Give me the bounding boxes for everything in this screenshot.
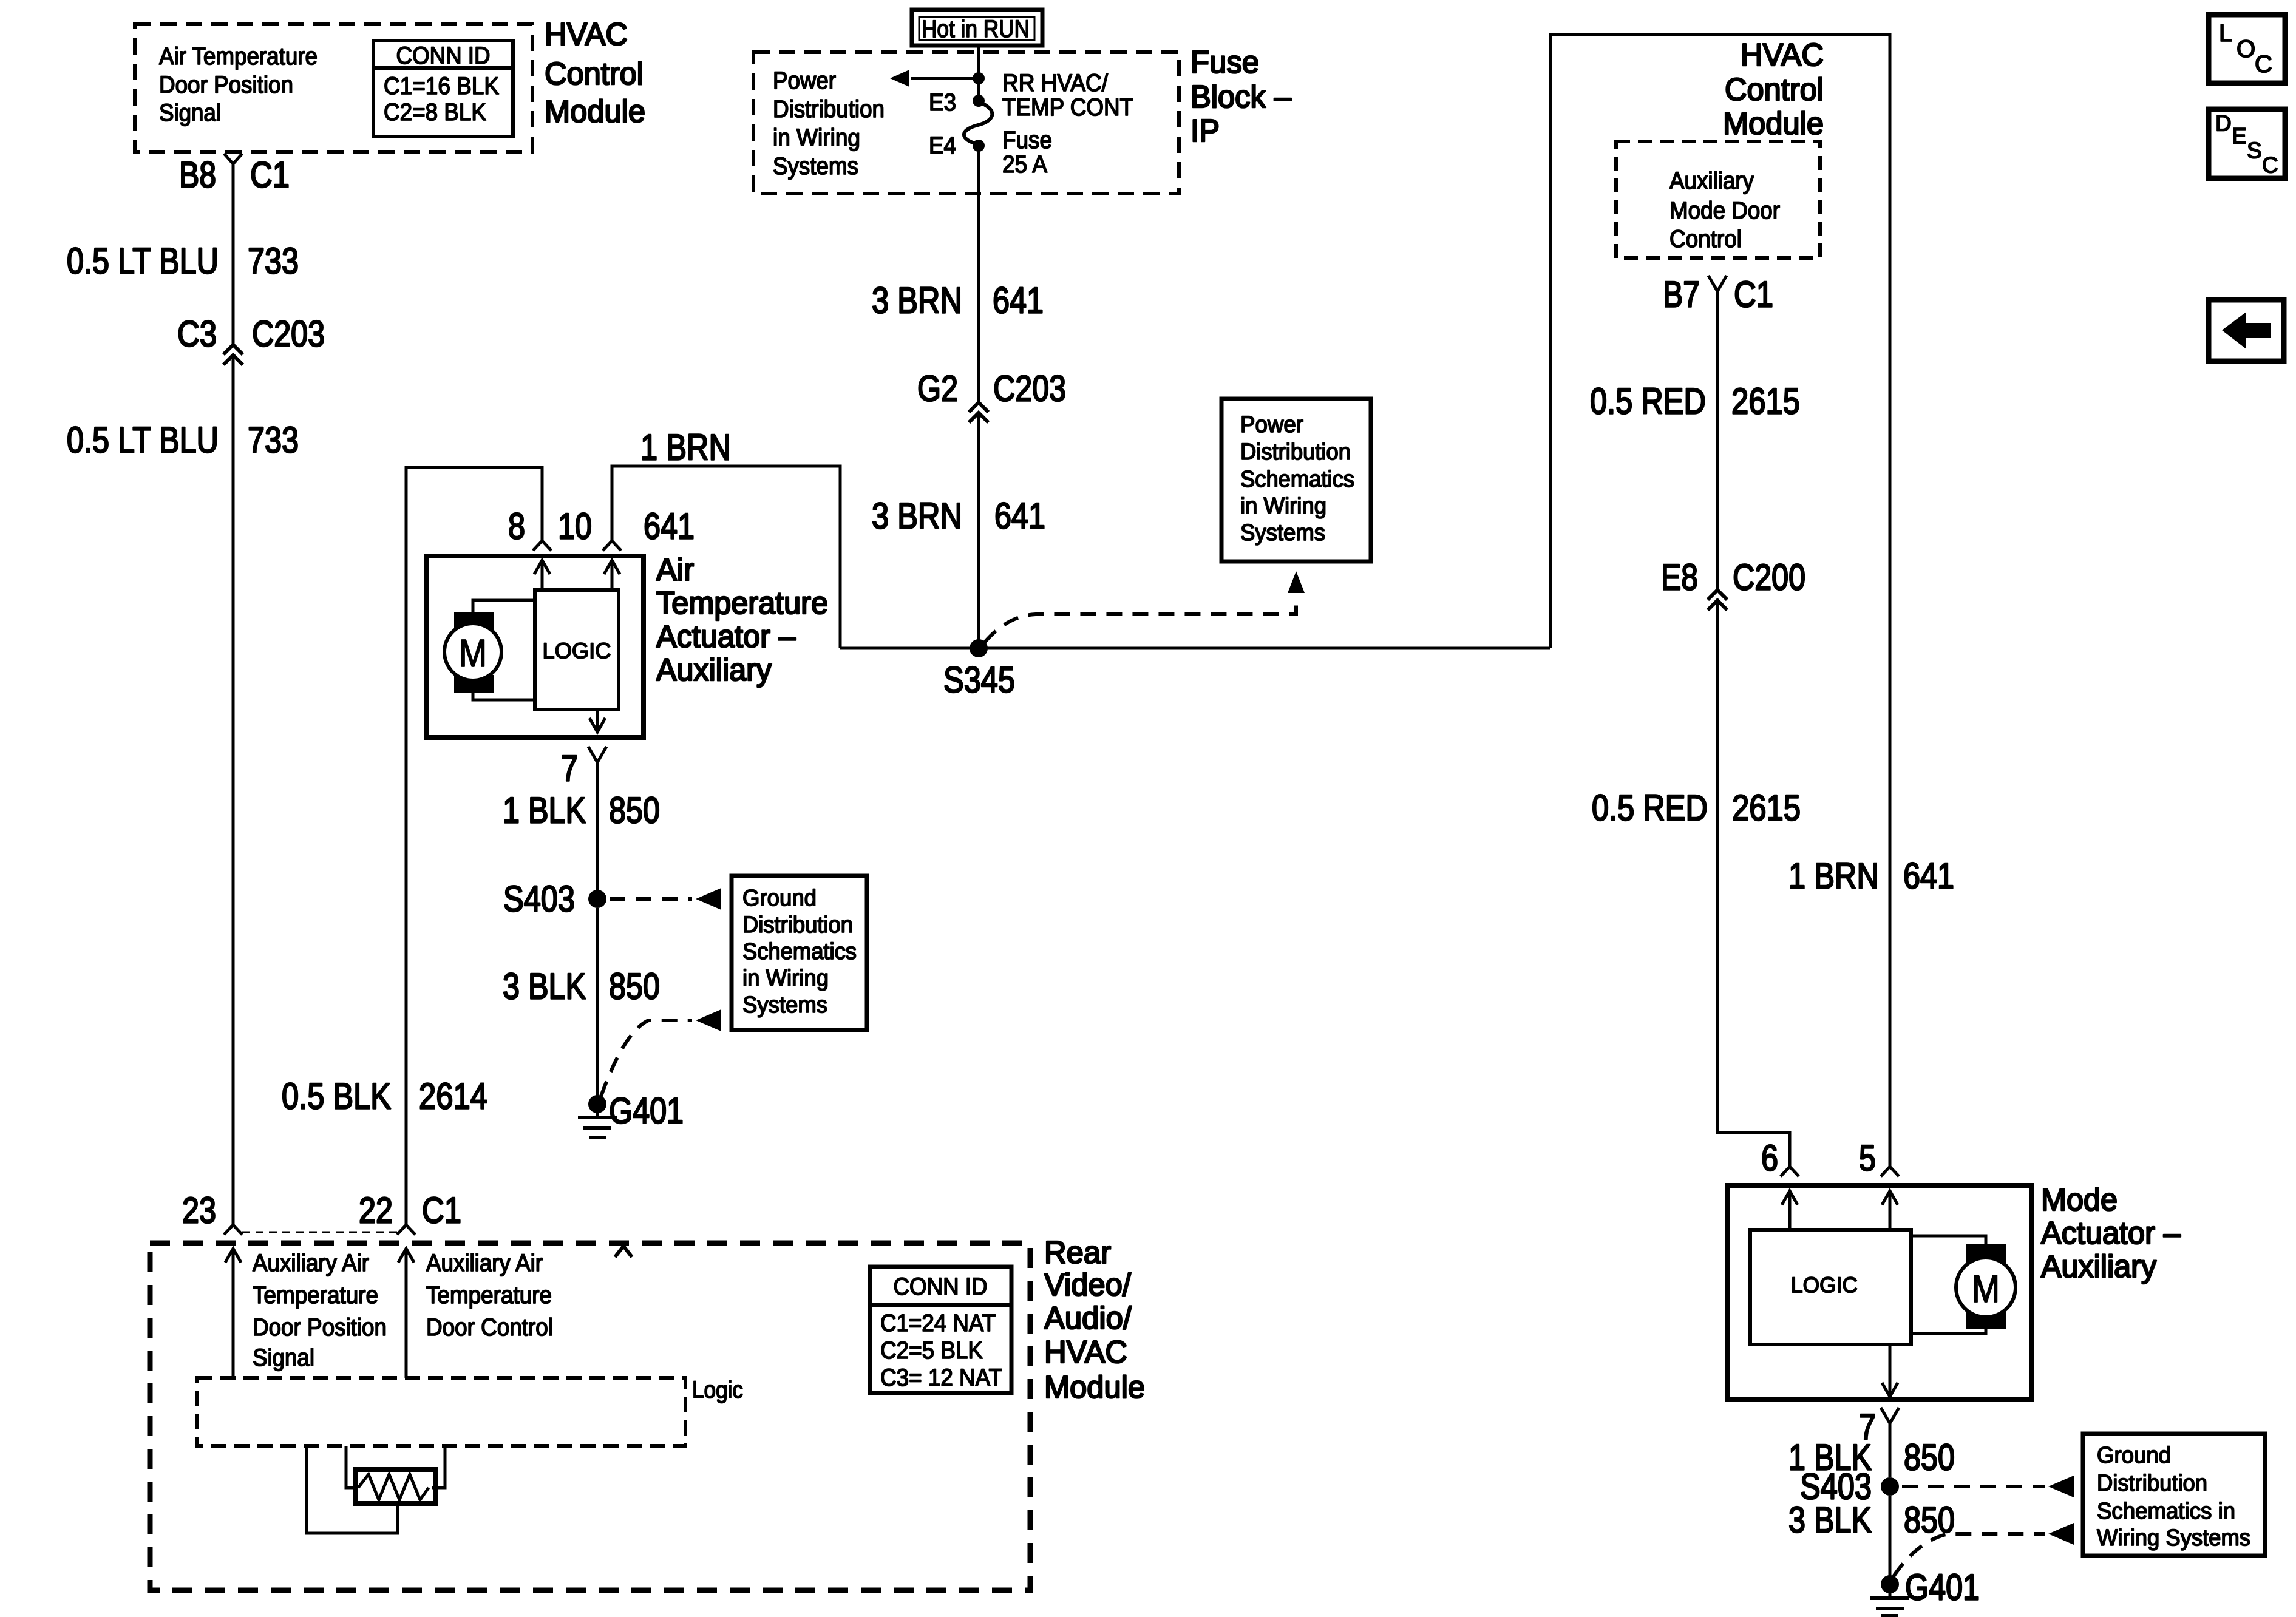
- fuse RR HVAC/TEMP CONT 25 A: [973, 95, 985, 107]
- svg-text:0.5 RED: 0.5 RED: [1590, 381, 1706, 422]
- reference box: Ground Distribution Schematics in Wiring Systems (left): [732, 876, 867, 1030]
- svg-text:Control: Control: [545, 56, 644, 92]
- svg-text:Distribution: Distribution: [742, 912, 853, 938]
- svg-text:Distribution: Distribution: [773, 96, 885, 123]
- wire: 1 BRN 641 up-over-down to Mode Actuator pin 5: [1550, 35, 1890, 1167]
- dashed reference G401 to Ground Distribution box: [601, 1020, 692, 1096]
- svg-text:LOGIC: LOGIC: [543, 639, 611, 663]
- connector pin 5 (female): [1881, 1167, 1899, 1176]
- svg-text:C1=16 BLK: C1=16 BLK: [384, 73, 499, 100]
- Hot in RUN box: [912, 10, 1042, 46]
- svg-text:Signal: Signal: [253, 1344, 314, 1371]
- splice S403 (right): [1881, 1477, 1899, 1496]
- svg-text:in Wiring: in Wiring: [1240, 493, 1326, 519]
- svg-text:2615: 2615: [1732, 788, 1801, 829]
- svg-text:HVAC: HVAC: [545, 17, 628, 52]
- ground G401 (right): [1881, 1575, 1899, 1593]
- svg-text:0.5 BLK: 0.5 BLK: [282, 1076, 391, 1117]
- svg-text:Control: Control: [1669, 226, 1742, 253]
- connector B7 C1 (female Y): [1708, 276, 1727, 291]
- svg-text:C203: C203: [252, 314, 325, 354]
- svg-text:L: L: [2219, 20, 2232, 47]
- svg-text:CONN ID: CONN ID: [396, 42, 491, 69]
- component box: Air Temperature Actuator - Auxiliary: [426, 556, 644, 737]
- svg-text:in Wiring: in Wiring: [742, 966, 829, 991]
- svg-text:C1: C1: [250, 155, 290, 195]
- svg-text:in Wiring: in Wiring: [773, 124, 860, 151]
- svg-text:Hot in RUN: Hot in RUN: [922, 16, 1030, 42]
- svg-text:RR HVAC/: RR HVAC/: [1002, 70, 1109, 97]
- pin 7 arrow out of LOGIC: [596, 710, 599, 733]
- svg-text:C203: C203: [993, 368, 1066, 409]
- reference box: Ground Distribution Schematics in Wiring Systems (right): [2083, 1434, 2265, 1556]
- wire: 3 BRN 641 fuse to S345: [977, 151, 980, 402]
- CONN ID table (Rear module): [870, 1267, 1011, 1393]
- svg-text:Fuse: Fuse: [1002, 127, 1052, 154]
- pin 23 arrow inside module: [232, 1248, 235, 1378]
- svg-text:0.5 LT BLU: 0.5 LT BLU: [67, 241, 219, 282]
- svg-text:D: D: [2215, 111, 2232, 136]
- component box: Mode Actuator - Auxiliary: [1728, 1185, 2031, 1400]
- svg-text:E8: E8: [1661, 557, 1698, 598]
- resistor bottom wire: [307, 1446, 398, 1533]
- motor wires (mode actuator): [1911, 1236, 1986, 1244]
- LOGIC box: [535, 590, 619, 710]
- LOGIC box (mode actuator): [1750, 1230, 1911, 1344]
- pin 6 arrow into LOGIC: [1788, 1190, 1792, 1230]
- connector pin 8 (female): [533, 541, 551, 551]
- splice S403 (left): [588, 890, 606, 908]
- svg-text:Actuator –: Actuator –: [2041, 1216, 2181, 1251]
- wire: 0.5 RED 2615 lower to Mode Actuator pin 6: [1717, 602, 1790, 1167]
- pin 7 arrow out of LOGIC (mode actuator): [1889, 1344, 1892, 1397]
- DESC box: [2209, 109, 2285, 178]
- svg-text:IP: IP: [1190, 114, 1220, 149]
- ground G401 (left): [588, 1095, 606, 1113]
- module box: Auxiliary Mode Door Control (dashed): [1616, 141, 1820, 258]
- svg-text:641: 641: [994, 496, 1045, 537]
- dashed reference wire S345 to Power Distribution box: [985, 597, 1296, 642]
- connector pin 7 (female Y, mode actuator): [1881, 1408, 1899, 1423]
- wire from Hot in RUN to fuse: [977, 46, 980, 97]
- svg-text:LOGIC: LOGIC: [1791, 1273, 1858, 1298]
- svg-text:Temperature: Temperature: [253, 1282, 378, 1309]
- svg-text:Power: Power: [773, 67, 836, 94]
- svg-text:Schematics: Schematics: [1240, 467, 1354, 492]
- svg-text:Fuse: Fuse: [1190, 45, 1259, 80]
- motor M (mode actuator): [1966, 1244, 2006, 1264]
- svg-text:Power: Power: [1240, 412, 1303, 438]
- svg-text:Ground: Ground: [2097, 1443, 2171, 1468]
- wire: 3 BLK 850: [596, 908, 599, 1096]
- LOC box: [2209, 15, 2285, 83]
- dashed reference S403 to Ground Distribution box: [610, 897, 692, 901]
- svg-text:Systems: Systems: [773, 153, 858, 180]
- svg-text:E3: E3: [929, 89, 956, 116]
- dashed reference G401 to Ground Distribution (right): [1894, 1534, 2045, 1576]
- module box: Fuse Block - IP (dashed): [753, 52, 1179, 194]
- back arrow box: [2209, 300, 2284, 361]
- svg-text:C200: C200: [1733, 557, 1805, 598]
- svg-text:Video/: Video/: [1044, 1267, 1132, 1303]
- svg-text:B7: B7: [1663, 274, 1700, 315]
- svg-text:Systems: Systems: [742, 992, 827, 1018]
- svg-text:Audio/: Audio/: [1044, 1301, 1132, 1336]
- svg-text:1 BRN: 1 BRN: [640, 427, 731, 468]
- CONN ID table (HVAC Control Module): [373, 41, 513, 137]
- wire: 3 BLK 850 (right): [1889, 1496, 1892, 1576]
- svg-text:850: 850: [1904, 1500, 1955, 1541]
- svg-text:Air: Air: [656, 552, 694, 588]
- svg-text:G2: G2: [917, 368, 958, 409]
- wire: 1 BRN (pin 10 up and right): [612, 466, 840, 648]
- svg-text:850: 850: [609, 966, 660, 1007]
- svg-text:C2=5 BLK: C2=5 BLK: [880, 1337, 983, 1364]
- svg-text:0.5 RED: 0.5 RED: [1592, 788, 1708, 829]
- svg-text:C1: C1: [1734, 274, 1773, 315]
- svg-text:S: S: [2247, 138, 2262, 163]
- svg-text:Control: Control: [1725, 72, 1824, 107]
- svg-text:Logic: Logic: [692, 1377, 743, 1403]
- connector pin 10 (female): [603, 541, 621, 551]
- wire: 1 BLK 850: [596, 762, 599, 890]
- svg-text:G401: G401: [1905, 1567, 1980, 1608]
- svg-text:641: 641: [1903, 856, 1954, 897]
- svg-text:1 BLK: 1 BLK: [503, 790, 586, 831]
- svg-text:Module: Module: [545, 94, 645, 129]
- reference box: Power Distribution Schematics in Wiring Systems: [1221, 399, 1371, 561]
- svg-text:2615: 2615: [1731, 381, 1800, 422]
- svg-text:Systems: Systems: [1240, 520, 1325, 546]
- pin 8 arrow into LOGIC: [541, 560, 544, 590]
- svg-text:Distribution: Distribution: [2097, 1471, 2207, 1496]
- wire: 1 BLK 850 (right): [1889, 1423, 1892, 1477]
- svg-text:3 BRN: 3 BRN: [872, 496, 962, 537]
- svg-text:C2=8 BLK: C2=8 BLK: [384, 99, 486, 126]
- svg-text:Auxiliary: Auxiliary: [1669, 168, 1754, 194]
- pin 10 arrow into LOGIC: [611, 560, 614, 590]
- svg-text:733: 733: [248, 241, 299, 282]
- svg-text:22: 22: [359, 1190, 393, 1231]
- svg-text:M: M: [459, 631, 487, 675]
- svg-text:Actuator –: Actuator –: [656, 619, 796, 654]
- connector mark on module edge: [615, 1246, 632, 1257]
- svg-text:25 A: 25 A: [1002, 151, 1047, 178]
- svg-text:Auxiliary: Auxiliary: [656, 653, 772, 688]
- connector pin 6 (female): [1781, 1167, 1799, 1176]
- svg-text:850: 850: [609, 790, 660, 831]
- svg-text:Signal: Signal: [159, 100, 221, 126]
- svg-text:Auxiliary: Auxiliary: [2041, 1249, 2156, 1284]
- svg-text:641: 641: [644, 506, 695, 547]
- svg-text:Auxiliary Air: Auxiliary Air: [253, 1250, 369, 1276]
- svg-text:Distribution: Distribution: [1240, 439, 1351, 465]
- svg-text:O: O: [2237, 36, 2255, 63]
- wire: 1 BRN 641 horizontal through S345: [840, 647, 1550, 650]
- svg-text:CONN ID: CONN ID: [894, 1273, 988, 1300]
- svg-text:Ground: Ground: [742, 886, 817, 911]
- svg-text:Air Temperature: Air Temperature: [159, 43, 318, 70]
- pin 5 arrow into LOGIC: [1889, 1190, 1892, 1230]
- svg-text:23: 23: [182, 1190, 216, 1231]
- svg-text:8: 8: [508, 506, 525, 547]
- svg-text:C3= 12 NAT: C3= 12 NAT: [880, 1364, 1002, 1391]
- svg-text:641: 641: [993, 280, 1044, 321]
- svg-text:HVAC: HVAC: [1044, 1335, 1127, 1370]
- svg-text:3 BLK: 3 BLK: [503, 966, 586, 1007]
- motor M: [454, 612, 494, 630]
- splice S345: [970, 639, 988, 657]
- wire: 0.5 LT BLU 733 upper segment: [232, 164, 235, 344]
- svg-text:5: 5: [1859, 1138, 1876, 1179]
- svg-text:Schematics: Schematics: [742, 939, 857, 964]
- wire: 0.5 LT BLU 733 lower segment: [232, 357, 235, 1225]
- svg-text:G401: G401: [609, 1091, 684, 1131]
- connector pin 7 (female Y): [588, 747, 606, 762]
- svg-text:Rear: Rear: [1044, 1235, 1111, 1270]
- motor wires: [473, 600, 535, 612]
- module box: Rear Video/Audio/HVAC Module (dashed): [150, 1243, 1030, 1590]
- svg-text:Door Control: Door Control: [426, 1314, 553, 1341]
- svg-text:733: 733: [248, 420, 299, 461]
- svg-text:C: C: [2262, 153, 2278, 178]
- pin 22 arrow inside module: [405, 1248, 408, 1378]
- svg-text:Temperature: Temperature: [656, 586, 828, 621]
- svg-text:1 BRN: 1 BRN: [1788, 856, 1879, 897]
- svg-text:Door Position: Door Position: [253, 1314, 387, 1341]
- svg-text:E: E: [2232, 124, 2247, 149]
- svg-text:Module: Module: [1044, 1370, 1145, 1405]
- positioner resistor inside Rear module: [346, 1446, 357, 1488]
- svg-text:Block –: Block –: [1190, 80, 1291, 115]
- svg-text:HVAC: HVAC: [1741, 38, 1824, 73]
- svg-text:10: 10: [558, 506, 592, 547]
- wire: 0.5 BLK 2614 (pin 8 to pin 22): [406, 467, 542, 1225]
- svg-text:Temperature: Temperature: [426, 1282, 552, 1309]
- svg-text:0.5 LT BLU: 0.5 LT BLU: [67, 420, 219, 461]
- wire: 0.5 RED 2615 upper: [1716, 291, 1719, 590]
- svg-text:3 BRN: 3 BRN: [872, 280, 962, 321]
- svg-text:Auxiliary Air: Auxiliary Air: [426, 1250, 543, 1276]
- dashed reference S403 to Ground Distribution (right): [1902, 1485, 2045, 1488]
- svg-text:Schematics in: Schematics in: [2097, 1499, 2235, 1524]
- svg-text:Wiring Systems: Wiring Systems: [2097, 1525, 2250, 1551]
- svg-text:7: 7: [561, 748, 578, 789]
- svg-text:2614: 2614: [419, 1076, 487, 1117]
- svg-text:C1=24 NAT: C1=24 NAT: [880, 1310, 996, 1337]
- svg-text:Module: Module: [1723, 106, 1824, 141]
- svg-text:C1: C1: [422, 1190, 461, 1231]
- Logic box (dashed) inside Rear module: [197, 1378, 685, 1446]
- svg-text:E4: E4: [929, 132, 956, 159]
- svg-text:3 BLK: 3 BLK: [1788, 1500, 1872, 1541]
- svg-text:B8: B8: [179, 155, 216, 195]
- svg-text:M: M: [1972, 1267, 2000, 1310]
- svg-text:S403: S403: [503, 879, 575, 920]
- svg-text:850: 850: [1904, 1437, 1955, 1478]
- junction dot and arrow to Power Distribution: [973, 72, 985, 84]
- module box: HVAC Control Module (left, dashed): [135, 24, 532, 152]
- svg-text:Door Position: Door Position: [159, 72, 293, 98]
- connector B8 C1 (female Y): [224, 154, 242, 164]
- svg-text:6: 6: [1761, 1138, 1778, 1179]
- svg-text:TEMP CONT: TEMP CONT: [1002, 94, 1133, 121]
- svg-text:Mode: Mode: [2041, 1182, 2118, 1218]
- svg-text:S345: S345: [943, 660, 1015, 700]
- svg-text:C3: C3: [177, 314, 217, 354]
- thin dashed connector line 23-22: [242, 1232, 397, 1233]
- svg-text:Mode Door: Mode Door: [1669, 197, 1780, 224]
- svg-text:C: C: [2255, 51, 2272, 78]
